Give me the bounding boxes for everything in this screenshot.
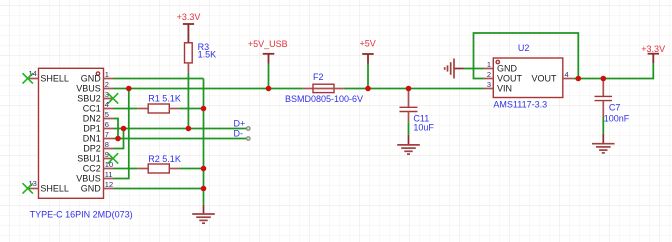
junction DN2 DN1 bbox=[115, 136, 121, 142]
resistor R1 bbox=[138, 94, 181, 114]
wire DP1 D+ bbox=[114, 128, 249, 130]
fuse F2 bbox=[285, 72, 363, 104]
junction +5V bbox=[365, 86, 371, 92]
no-connect X pin 9 bbox=[108, 153, 118, 163]
svg-text:11: 11 bbox=[105, 170, 113, 179]
svg-text:U2: U2 bbox=[518, 43, 530, 53]
ground C11 bbox=[397, 135, 420, 154]
wire R3 to DP1 bbox=[187, 73, 189, 129]
svg-text:DP2: DP2 bbox=[83, 144, 101, 154]
wire U2 VOUT output rail bbox=[573, 63, 653, 78]
svg-text:SHELL: SHELL bbox=[40, 184, 69, 194]
pin 6 DP1 bbox=[83, 120, 113, 134]
pin 13 SHELL bbox=[28, 179, 68, 193]
no-connect X pin 3 bbox=[108, 93, 118, 103]
svg-text:SBU2: SBU2 bbox=[77, 94, 101, 104]
junction R3 DP1 bbox=[186, 126, 192, 132]
svg-text:5: 5 bbox=[105, 110, 109, 119]
resistor R2 bbox=[138, 154, 181, 173]
junction R1 GND bbox=[201, 106, 207, 112]
pin 10 CC2 bbox=[83, 160, 114, 174]
net port D- bbox=[247, 137, 251, 141]
svg-text:10uF: 10uF bbox=[413, 123, 434, 133]
pin 9 SBU1 bbox=[77, 150, 113, 164]
pin 1 GND bbox=[81, 70, 114, 84]
svg-text:CC1: CC1 bbox=[83, 104, 101, 114]
wire VBUS vertical pin2 to pin11 bbox=[114, 89, 129, 179]
junction R2 GND bbox=[201, 166, 207, 172]
U2 pin 2 VOUT bbox=[484, 70, 523, 84]
junction C11 bbox=[406, 86, 412, 92]
svg-text:F2: F2 bbox=[313, 72, 324, 82]
no-connect X pin 13 bbox=[23, 183, 33, 193]
U2 pin 4 VOUT bbox=[531, 70, 573, 84]
pin 8 DP2 bbox=[83, 140, 113, 154]
svg-text:R1 5.1K: R1 5.1K bbox=[148, 94, 181, 104]
svg-text:R2 5.1K: R2 5.1K bbox=[148, 154, 181, 164]
svg-text:VBUS: VBUS bbox=[76, 174, 101, 184]
junction VBUS pin2 bbox=[126, 86, 132, 92]
pin 12 GND bbox=[81, 180, 114, 194]
svg-text:VOUT: VOUT bbox=[497, 74, 523, 84]
wire DN1 D- bbox=[114, 138, 249, 140]
wire +5V_USB stem bbox=[268, 64, 270, 89]
wire CC1 to R1 bbox=[114, 108, 138, 110]
svg-text:+5V_USB: +5V_USB bbox=[248, 39, 288, 49]
ground C7 bbox=[592, 134, 615, 153]
svg-text:BSMD0805-100-6V: BSMD0805-100-6V bbox=[285, 94, 363, 104]
junction DP2 DP1 bbox=[121, 126, 127, 132]
U2 pin 1 GND bbox=[484, 60, 518, 74]
svg-text:7: 7 bbox=[105, 130, 109, 139]
svg-text:TYPE-C 16PIN 2MD(073): TYPE-C 16PIN 2MD(073) bbox=[30, 209, 133, 219]
capacitor C11 bbox=[400, 89, 435, 133]
svg-text:+3.3V: +3.3V bbox=[641, 44, 665, 54]
wire +5V rail right of F2 bbox=[344, 88, 484, 90]
svg-text:8: 8 bbox=[105, 140, 109, 149]
svg-text:1: 1 bbox=[487, 60, 491, 69]
svg-text:GND: GND bbox=[81, 74, 102, 84]
svg-text:10: 10 bbox=[105, 160, 113, 169]
resistor R3 bbox=[185, 42, 217, 73]
ground GND bus bbox=[192, 205, 215, 223]
pin 7 DN1 bbox=[83, 130, 114, 144]
net port D+ bbox=[247, 127, 251, 131]
junction C7 tap bbox=[601, 76, 607, 82]
svg-text:VOUT: VOUT bbox=[531, 74, 557, 84]
wire U2 GND to earth bbox=[464, 68, 484, 70]
power flag +3.3V right bbox=[641, 44, 665, 63]
svg-text:GND: GND bbox=[497, 64, 518, 74]
power flag +5V bbox=[359, 39, 375, 64]
pin 4 CC1 bbox=[83, 100, 114, 114]
wire CC2 to R2 bbox=[114, 168, 138, 170]
svg-text:100nF: 100nF bbox=[604, 114, 630, 124]
svg-text:SHELL: SHELL bbox=[40, 74, 69, 84]
pin 2 VBUS bbox=[76, 80, 113, 94]
svg-text:AMS1117-3.3: AMS1117-3.3 bbox=[493, 99, 547, 109]
svg-text:C7: C7 bbox=[609, 103, 621, 113]
svg-text:DN2: DN2 bbox=[83, 114, 101, 124]
wire +5V stem bbox=[367, 64, 369, 89]
svg-text:3: 3 bbox=[487, 80, 491, 89]
svg-text:+5V: +5V bbox=[359, 39, 375, 49]
svg-text:1.5K: 1.5K bbox=[198, 49, 217, 59]
capacitor C7 bbox=[595, 79, 630, 124]
svg-text:DN1: DN1 bbox=[83, 134, 101, 144]
wire C11 lower bbox=[408, 122, 410, 135]
svg-text:12: 12 bbox=[105, 180, 113, 189]
wire GND pin1 horizontal bbox=[114, 78, 204, 80]
wire U2 VOUT loop bbox=[474, 33, 579, 79]
svg-text:6: 6 bbox=[105, 120, 109, 129]
wire DP2 to DP1 bbox=[114, 129, 124, 149]
connector U1 TYPE-C body bbox=[39, 68, 104, 198]
junction +5V_USB bbox=[266, 86, 272, 92]
svg-text:GND: GND bbox=[81, 184, 102, 194]
svg-text:1: 1 bbox=[105, 70, 109, 79]
pin 5 DN2 bbox=[83, 110, 114, 124]
power flag +5V_USB bbox=[248, 39, 288, 63]
regulator U2 AMS1117-3.3 bbox=[493, 43, 563, 109]
svg-text:D-: D- bbox=[234, 129, 244, 139]
svg-text:4: 4 bbox=[105, 100, 109, 109]
svg-text:+3.3V: +3.3V bbox=[177, 12, 201, 22]
svg-text:D+: D+ bbox=[234, 119, 246, 129]
wire R1 to GND bus bbox=[179, 108, 203, 110]
svg-text:SBU1: SBU1 bbox=[77, 154, 101, 164]
junction U2 loop pin4 bbox=[576, 76, 582, 82]
wire DN2 to DN1 bbox=[114, 119, 119, 139]
ground U2 pin1 (rotated) bbox=[445, 59, 464, 79]
pin 3 SBU2 bbox=[77, 90, 113, 104]
svg-text:CC2: CC2 bbox=[83, 164, 101, 174]
svg-text:DP1: DP1 bbox=[83, 124, 101, 134]
svg-text:VIN: VIN bbox=[497, 84, 512, 94]
wire GND vertical bus bbox=[203, 79, 205, 205]
pin 11 VBUS bbox=[76, 170, 113, 184]
svg-text:VBUS: VBUS bbox=[76, 84, 101, 94]
svg-text:2: 2 bbox=[105, 80, 109, 89]
wire GND pin12 bbox=[114, 188, 204, 190]
U2 pin 3 VIN bbox=[484, 80, 513, 94]
svg-text:4: 4 bbox=[565, 70, 569, 79]
wire VBUS rail left of F2 bbox=[114, 88, 303, 90]
wire R2 to GND bus bbox=[179, 168, 203, 170]
pin 14 SHELL bbox=[28, 69, 68, 83]
no-connect X pin 14 bbox=[23, 73, 33, 83]
svg-text:2: 2 bbox=[487, 70, 491, 79]
power flag +3.3V top bbox=[177, 12, 201, 43]
junction pin12 GND bbox=[201, 186, 207, 192]
wire C7 lower bbox=[602, 117, 604, 134]
